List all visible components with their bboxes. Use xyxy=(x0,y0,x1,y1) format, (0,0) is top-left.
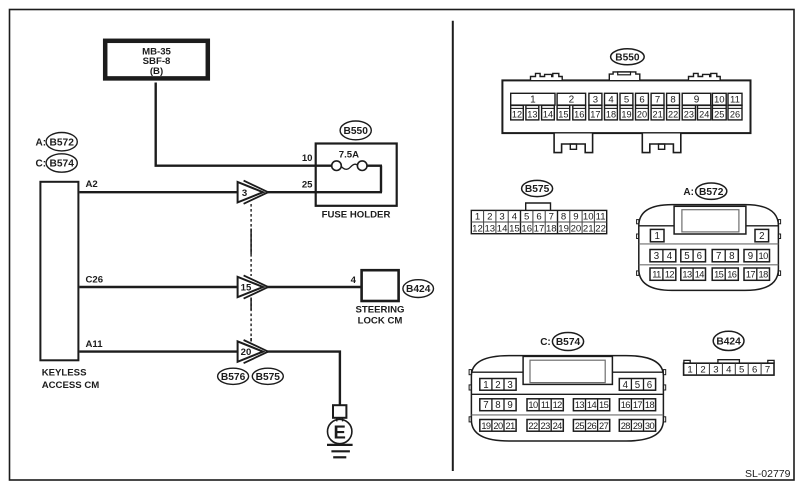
svg-text:12: 12 xyxy=(472,223,483,234)
svg-text:3: 3 xyxy=(507,380,512,391)
B575 pin grid (pins 1-22) xyxy=(471,210,606,233)
svg-text:22: 22 xyxy=(528,421,538,431)
wire connector 3 to fuse pin 25 xyxy=(267,191,383,193)
svg-text:19: 19 xyxy=(621,110,631,120)
svg-text:14: 14 xyxy=(695,270,705,280)
keyless access CM box xyxy=(40,182,78,360)
steering lock CM box xyxy=(362,270,399,301)
svg-text:11: 11 xyxy=(596,212,606,223)
svg-text:1: 1 xyxy=(475,212,480,223)
B572 pins 11-18 xyxy=(650,268,676,280)
svg-text:9: 9 xyxy=(694,95,700,106)
svg-text:23: 23 xyxy=(684,110,694,120)
svg-text:13: 13 xyxy=(575,400,585,410)
wire to fuse holder pin 10 xyxy=(155,164,333,166)
B550 bottom tab left xyxy=(554,134,593,153)
svg-text:14: 14 xyxy=(543,110,553,120)
B424 pin row (pins 1-7) xyxy=(684,363,774,375)
svg-text:30: 30 xyxy=(645,421,655,431)
svg-text:28: 28 xyxy=(621,421,631,431)
svg-text:14: 14 xyxy=(587,400,597,410)
svg-text:1: 1 xyxy=(530,95,536,106)
svg-text:B576: B576 xyxy=(221,372,246,383)
connector symbol 15 xyxy=(238,275,269,298)
B574 pins 22-24 xyxy=(527,420,563,432)
B574 pins 1-3 xyxy=(480,379,516,391)
B575 oval (schematic) xyxy=(252,368,283,384)
svg-text:C:: C: xyxy=(36,159,47,170)
svg-text:13: 13 xyxy=(484,223,495,234)
connector label A: B572 xyxy=(36,133,78,151)
svg-text:29: 29 xyxy=(633,421,643,431)
B575 top tab xyxy=(526,203,551,210)
svg-text:7: 7 xyxy=(483,400,488,411)
svg-text:6: 6 xyxy=(697,251,702,262)
svg-text:3: 3 xyxy=(499,212,504,223)
svg-text:21: 21 xyxy=(652,110,662,120)
svg-text:ACCESS CM: ACCESS CM xyxy=(42,380,100,391)
B550 pin row 1 (pins 1-11) xyxy=(511,93,555,105)
B572 pins 3-10 xyxy=(650,250,676,262)
svg-text:5: 5 xyxy=(624,95,629,106)
svg-text:B575: B575 xyxy=(256,372,281,383)
svg-text:11: 11 xyxy=(730,95,740,106)
svg-text:17: 17 xyxy=(534,223,545,234)
B574 pins 16-18 xyxy=(619,399,655,411)
svg-text:16: 16 xyxy=(727,270,737,280)
svg-text:16: 16 xyxy=(621,400,631,410)
dashed shield line between connectors 15 and 20 xyxy=(250,298,252,342)
svg-text:4: 4 xyxy=(726,365,732,376)
svg-text:8: 8 xyxy=(495,400,500,411)
svg-text:22: 22 xyxy=(595,223,606,234)
B574 pins 25-27 xyxy=(573,420,609,432)
svg-text:7: 7 xyxy=(716,251,721,262)
svg-text:15: 15 xyxy=(599,400,609,410)
wire A11 to connector 20 xyxy=(79,350,238,352)
svg-text:B424: B424 xyxy=(406,284,431,295)
B572 connector body xyxy=(637,205,781,291)
svg-text:12: 12 xyxy=(665,270,675,280)
B576 oval xyxy=(218,368,249,384)
svg-text:4: 4 xyxy=(512,212,518,223)
B550 connector body xyxy=(502,80,750,133)
svg-text:B574: B574 xyxy=(556,337,581,348)
svg-text:E: E xyxy=(334,422,346,443)
svg-text:7.5A: 7.5A xyxy=(339,150,359,161)
svg-text:4: 4 xyxy=(351,275,357,286)
svg-text:21: 21 xyxy=(506,421,516,431)
svg-text:9: 9 xyxy=(507,400,512,411)
B572 pin 2 xyxy=(755,229,769,241)
wire C26 to connector 15 xyxy=(79,286,238,288)
svg-text:16: 16 xyxy=(521,223,532,234)
svg-text:1: 1 xyxy=(687,365,692,376)
B574 pins 28-30 xyxy=(619,420,655,432)
B574 pins 19-21 xyxy=(480,420,516,432)
svg-text:15: 15 xyxy=(241,283,252,294)
svg-text:8: 8 xyxy=(729,251,734,262)
svg-text:B550: B550 xyxy=(615,52,640,63)
svg-text:17: 17 xyxy=(633,400,643,410)
svg-text:10: 10 xyxy=(302,153,313,164)
svg-text:18: 18 xyxy=(759,270,769,280)
B424 top tabs xyxy=(684,360,690,363)
svg-text:6: 6 xyxy=(536,212,541,223)
svg-text:B550: B550 xyxy=(344,126,369,137)
svg-text:7: 7 xyxy=(549,212,554,223)
svg-text:B575: B575 xyxy=(525,184,550,195)
B550 top tab left xyxy=(531,73,563,80)
svg-text:17: 17 xyxy=(590,110,600,120)
svg-text:8: 8 xyxy=(561,212,566,223)
svg-text:13: 13 xyxy=(682,270,692,280)
svg-text:16: 16 xyxy=(574,110,584,120)
B550 connector pinout oval xyxy=(611,49,645,65)
svg-text:11: 11 xyxy=(541,400,550,410)
B550 top tab middle xyxy=(609,72,640,80)
divider line xyxy=(452,21,454,471)
wire from MB-35 down xyxy=(154,83,156,166)
svg-text:24: 24 xyxy=(699,110,709,120)
fusebox MB-35 SBF-8 (B) xyxy=(105,41,208,79)
B550 pin row 2 (pins 12-26) xyxy=(511,105,524,120)
B574 pins 10-12 xyxy=(527,399,563,411)
svg-text:7: 7 xyxy=(655,95,660,106)
B550 bottom tab right xyxy=(642,134,681,153)
svg-text:B424: B424 xyxy=(716,337,741,348)
connector symbol 20 xyxy=(238,340,269,363)
svg-text:14: 14 xyxy=(497,223,508,234)
connector label C: B574 xyxy=(36,154,78,172)
B550 top tab right xyxy=(689,73,721,80)
svg-text:B572: B572 xyxy=(699,187,724,198)
svg-text:26: 26 xyxy=(587,421,597,431)
svg-text:4: 4 xyxy=(608,95,614,106)
svg-text:24: 24 xyxy=(553,421,563,431)
svg-text:SL-02779: SL-02779 xyxy=(745,468,791,480)
svg-text:15: 15 xyxy=(509,223,520,234)
svg-text:5: 5 xyxy=(739,365,744,376)
svg-text:18: 18 xyxy=(645,400,655,410)
svg-text:9: 9 xyxy=(748,251,753,262)
svg-text:22: 22 xyxy=(668,110,678,120)
svg-text:STEERING: STEERING xyxy=(355,305,404,316)
A: B572 pinout oval xyxy=(683,183,726,199)
wire connector 15 to steering lock xyxy=(267,286,362,288)
svg-text:20: 20 xyxy=(637,110,647,120)
svg-text:25: 25 xyxy=(575,421,585,431)
svg-text:2: 2 xyxy=(759,231,764,242)
svg-text:2: 2 xyxy=(700,365,705,376)
B574 side nubs xyxy=(469,370,471,375)
svg-text:8: 8 xyxy=(670,95,675,106)
svg-text:1: 1 xyxy=(483,380,488,391)
svg-text:4: 4 xyxy=(623,380,629,391)
svg-text:(B): (B) xyxy=(150,66,163,77)
svg-text:10: 10 xyxy=(714,95,725,106)
C: B574 pinout oval xyxy=(540,333,583,351)
svg-text:20: 20 xyxy=(493,421,503,431)
svg-text:20: 20 xyxy=(241,347,252,358)
svg-text:2: 2 xyxy=(487,212,492,223)
ground symbol E xyxy=(327,405,353,457)
svg-text:A11: A11 xyxy=(86,339,104,350)
B424 oval (schematic) xyxy=(403,280,434,298)
B574 connector body xyxy=(469,356,666,441)
svg-text:18: 18 xyxy=(546,223,557,234)
svg-text:15: 15 xyxy=(558,110,568,120)
svg-text:23: 23 xyxy=(541,421,551,431)
svg-text:12: 12 xyxy=(512,110,522,120)
svg-text:5: 5 xyxy=(635,380,640,391)
svg-text:C:: C: xyxy=(540,337,551,348)
svg-text:9: 9 xyxy=(573,212,578,223)
svg-text:KEYLESS: KEYLESS xyxy=(42,368,87,379)
svg-text:A2: A2 xyxy=(86,179,98,190)
svg-text:2: 2 xyxy=(569,95,575,106)
svg-text:3: 3 xyxy=(713,365,718,376)
dashed shield line between connectors 3 and 15 xyxy=(250,204,252,276)
svg-text:4: 4 xyxy=(667,251,673,262)
B575 pinout oval xyxy=(522,180,553,196)
B574 pins 4-6 xyxy=(619,379,655,391)
svg-text:19: 19 xyxy=(481,421,491,431)
svg-text:25: 25 xyxy=(302,179,313,190)
svg-text:FUSE HOLDER: FUSE HOLDER xyxy=(322,210,391,221)
svg-text:12: 12 xyxy=(553,400,563,410)
svg-text:A:: A: xyxy=(36,137,47,148)
svg-text:6: 6 xyxy=(647,380,652,391)
fuse element: two circles with squiggle xyxy=(332,161,382,192)
svg-text:18: 18 xyxy=(606,110,616,120)
B424 pinout oval xyxy=(713,331,744,350)
B572 side nubs xyxy=(637,220,639,224)
svg-text:LOCK CM: LOCK CM xyxy=(358,315,403,326)
B574 pins 13-15 xyxy=(573,399,609,411)
svg-text:6: 6 xyxy=(752,365,757,376)
connector symbol 3 xyxy=(238,181,269,204)
svg-text:1: 1 xyxy=(655,231,660,242)
svg-text:21: 21 xyxy=(583,223,594,234)
B572 pin 1 xyxy=(650,229,664,241)
svg-text:3: 3 xyxy=(242,188,247,199)
svg-text:19: 19 xyxy=(558,223,569,234)
svg-text:26: 26 xyxy=(730,110,740,120)
svg-text:10: 10 xyxy=(583,212,594,223)
svg-text:5: 5 xyxy=(524,212,529,223)
svg-text:15: 15 xyxy=(714,270,724,280)
svg-text:6: 6 xyxy=(639,95,644,106)
B574 pins 7-9 xyxy=(480,399,516,411)
svg-text:B574: B574 xyxy=(50,159,75,170)
svg-text:2: 2 xyxy=(495,380,500,391)
wire connector 20 to ground drop xyxy=(267,352,340,406)
svg-text:A:: A: xyxy=(683,187,694,198)
svg-text:17: 17 xyxy=(746,270,756,280)
svg-text:5: 5 xyxy=(684,251,689,262)
fuse holder box xyxy=(316,144,397,206)
svg-text:10: 10 xyxy=(759,251,769,261)
svg-text:7: 7 xyxy=(765,365,770,376)
svg-text:B572: B572 xyxy=(50,137,75,148)
svg-text:11: 11 xyxy=(652,270,661,280)
fuse holder B550 oval xyxy=(340,121,371,140)
svg-text:20: 20 xyxy=(571,223,582,234)
svg-text:10: 10 xyxy=(528,400,538,410)
svg-text:25: 25 xyxy=(714,110,724,120)
svg-text:3: 3 xyxy=(593,95,598,106)
svg-text:13: 13 xyxy=(527,110,537,120)
svg-text:27: 27 xyxy=(599,421,609,431)
svg-text:3: 3 xyxy=(654,251,659,262)
wire A2 to connector 3 xyxy=(79,191,238,193)
svg-text:C26: C26 xyxy=(86,274,104,285)
